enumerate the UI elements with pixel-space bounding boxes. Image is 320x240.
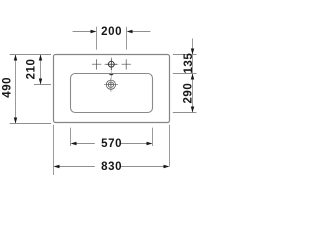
- svg-text:490: 490: [1, 77, 13, 98]
- svg-text:570: 570: [101, 138, 122, 150]
- svg-text:830: 830: [101, 161, 122, 173]
- svg-text:210: 210: [25, 59, 37, 80]
- svg-text:200: 200: [101, 26, 122, 38]
- svg-text:135: 135: [183, 53, 195, 74]
- svg-text:290: 290: [183, 83, 195, 104]
